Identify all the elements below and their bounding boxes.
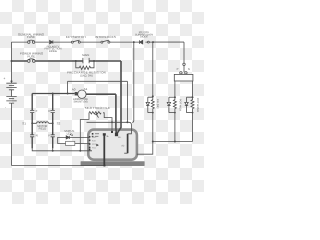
wire LED right lead to controller bbox=[69, 136, 89, 138]
wire pot box to branch2 bbox=[174, 81, 176, 97]
node junction A0 wire tee bbox=[67, 93, 69, 95]
branch 2 bottom bar bbox=[169, 112, 175, 114]
svg-text:DIODE: DIODE bbox=[49, 50, 57, 53]
svg-text:F: F bbox=[36, 109, 38, 113]
controller pin 5 bbox=[89, 149, 91, 151]
node junction bridge bottom right bbox=[52, 150, 54, 152]
contact R left bbox=[30, 135, 34, 137]
node junction branch2 top bbox=[174, 96, 176, 98]
diode D5 branch2 bbox=[167, 97, 170, 112]
svg-text:POT WIPER: POT WIPER bbox=[196, 98, 199, 112]
wire battery negative rail down bbox=[11, 103, 13, 165]
svg-text:+: + bbox=[3, 76, 5, 80]
node junction KSI wire on top bus bbox=[152, 41, 154, 43]
svg-text:KEYSWITCH: KEYSWITCH bbox=[66, 35, 86, 39]
node junction A2 takeoff on rail bbox=[11, 80, 13, 82]
diode D2 MC coil suppression bbox=[140, 40, 150, 44]
svg-text:B-: B- bbox=[107, 135, 110, 138]
terminal pad B- bbox=[103, 133, 106, 135]
meter M1 circle bbox=[78, 90, 86, 98]
wire M- heavy from meter to controller bbox=[86, 94, 116, 133]
controller U1 box bbox=[88, 130, 137, 160]
node junction precharge right bbox=[93, 60, 95, 62]
svg-text:S1: S1 bbox=[22, 122, 26, 126]
label F right bbox=[48, 109, 51, 113]
svg-text:N: N bbox=[188, 68, 190, 71]
terminal B+ blob bbox=[115, 133, 118, 137]
controller mounting flange bbox=[81, 161, 145, 166]
fuse F1 general wiring fuse bbox=[28, 40, 35, 43]
svg-text:POT HIGH: POT HIGH bbox=[178, 99, 181, 111]
controller pin 4 bbox=[89, 147, 91, 149]
terminal circle KSI right bbox=[183, 63, 185, 65]
wire LED left lead return bbox=[58, 137, 90, 143]
label A1 bbox=[84, 87, 88, 91]
contact R right bbox=[51, 135, 55, 137]
wire top control bus bbox=[12, 41, 185, 43]
svg-text:FIELD: FIELD bbox=[39, 127, 47, 130]
branch 3 bottom bar bbox=[187, 112, 193, 114]
svg-text:FLD: FLD bbox=[92, 147, 97, 150]
label KSI vertical bbox=[156, 99, 159, 109]
label MAIN bbox=[82, 53, 89, 57]
svg-text:S2: S2 bbox=[57, 122, 61, 126]
contact F left bbox=[30, 110, 34, 112]
branch 3 pot wiper: top bar bbox=[187, 96, 193, 98]
wire bridge right vertical bbox=[52, 94, 54, 149]
label R left bbox=[36, 134, 39, 138]
svg-text:MAIN: MAIN bbox=[82, 53, 89, 57]
branch 2 pot high: top bar bbox=[169, 96, 175, 98]
svg-text:KSI: KSI bbox=[92, 139, 96, 142]
wire branch bottoms to rail bbox=[153, 113, 193, 142]
node junction precharge left bbox=[75, 60, 77, 62]
wire battery positive rail bbox=[11, 42, 13, 83]
label 5K throttle bbox=[85, 106, 110, 110]
svg-text:FUSE: FUSE bbox=[27, 54, 35, 58]
node junction branch3 bottom bbox=[192, 112, 194, 114]
label MC COIL SUPPRESSION DIODE bbox=[135, 31, 153, 39]
wire B- bottom run to controller bbox=[12, 165, 105, 167]
busbar B- internal bbox=[103, 135, 105, 167]
wire A2 branch corner to W2 bbox=[68, 81, 128, 122]
node junction rail b1 bbox=[152, 141, 154, 143]
branch 1 bottom bar bbox=[148, 112, 153, 114]
terminal circle N bbox=[185, 72, 187, 74]
node junction B- at controller bbox=[104, 165, 106, 167]
label P bbox=[177, 68, 179, 71]
wire rail return into controller bbox=[137, 142, 153, 155]
label KEYSWITCH bbox=[66, 35, 86, 39]
label battery plus bbox=[3, 76, 5, 80]
wire KSI drop from top bus bbox=[152, 42, 154, 96]
label PRECHARGE RESISTOR value bbox=[67, 70, 107, 77]
LED D3 status bbox=[66, 134, 73, 139]
label battery minus bbox=[5, 105, 6, 109]
busbar A2 internal bbox=[127, 134, 129, 153]
potentiometer VR1 bbox=[89, 112, 101, 118]
terminal pad throttle input bbox=[111, 131, 113, 133]
svg-text:DIODE: DIODE bbox=[140, 36, 148, 39]
node junction MC coil wire on top bus bbox=[133, 41, 135, 43]
wire KSI terminal lead bbox=[183, 66, 185, 73]
switch S2 interlocks bbox=[101, 40, 110, 43]
branch 1 KSI input: top bar bbox=[148, 95, 153, 98]
resistor R2 branch1 bbox=[151, 97, 154, 112]
connector box on LED return bbox=[66, 141, 75, 145]
controller pin 2 bbox=[89, 140, 91, 142]
node junction branch3 top bbox=[192, 96, 194, 98]
pot box outline bbox=[174, 74, 193, 81]
svg-text:P: P bbox=[177, 68, 179, 71]
node junction branch2 bottom bbox=[174, 112, 176, 114]
node junction KSI branch top bbox=[152, 95, 154, 97]
wire A2 internal stub bottom bbox=[124, 152, 127, 154]
label A0 bbox=[72, 87, 76, 91]
label B+ bbox=[118, 136, 122, 139]
diode CR1 polarity protection bbox=[50, 40, 53, 43]
node junction pot lead on rail bbox=[79, 150, 81, 152]
label F left bbox=[36, 109, 38, 113]
svg-text:(1KΩ, 5W): (1KΩ, 5W) bbox=[80, 74, 93, 77]
wire KSI to pot box corner bbox=[153, 42, 184, 63]
svg-text:5K-0 THROTTLE: 5K-0 THROTTLE bbox=[85, 106, 110, 110]
pin labels block bbox=[92, 136, 97, 150]
svg-text:INTERLOCKS: INTERLOCKS bbox=[95, 35, 116, 39]
switch S1 keyswitch bbox=[71, 40, 80, 43]
svg-text:FUSE: FUSE bbox=[27, 35, 35, 39]
wire pot box to branch3 bbox=[192, 81, 194, 97]
node junction branch1 bottom bbox=[152, 112, 154, 114]
terminal pad A0 bbox=[75, 92, 78, 95]
resistor R4 branch3 bbox=[191, 97, 194, 112]
inductor L1 motor field coil bbox=[32, 122, 53, 124]
label POWER WIRING FUSE bbox=[20, 51, 44, 58]
svg-text:SHUNT (M): SHUNT (M) bbox=[74, 101, 88, 104]
contactor MC main contactor tips bbox=[83, 58, 89, 63]
label A2 bbox=[121, 145, 125, 148]
label S1 bbox=[22, 122, 26, 126]
wire bridge bottom rail to controller bbox=[32, 148, 92, 150]
svg-text:F: F bbox=[48, 134, 50, 138]
node junction field left bbox=[31, 122, 33, 124]
resistor R1 precharge bbox=[76, 61, 94, 70]
contact F right bbox=[51, 110, 55, 112]
wire armature rail to meter bbox=[32, 93, 74, 95]
wire pot right lead bbox=[103, 113, 112, 132]
wire bridge left vertical bbox=[31, 94, 33, 149]
controller top left pads bbox=[92, 133, 99, 137]
controller internal indicator triangle bbox=[96, 144, 99, 147]
wire main power bus B+ bbox=[12, 61, 122, 133]
node junction rail b2 bbox=[174, 141, 176, 143]
label MOTOR FIELD bbox=[37, 125, 47, 130]
wire W2 throttle common to A2 terminal bbox=[87, 122, 132, 134]
svg-text:A1: A1 bbox=[84, 87, 88, 91]
label INTERLOCKS bbox=[95, 35, 116, 39]
svg-text:KSI (5K): KSI (5K) bbox=[156, 99, 159, 109]
label POLARITY PROTECTION DIODE bbox=[44, 45, 61, 53]
label STATUS LED bbox=[64, 130, 74, 136]
node junction bus takeoff on battery rail bbox=[11, 60, 13, 62]
label shunt caption bbox=[73, 98, 88, 104]
node junction pot right on W2 bbox=[111, 121, 113, 123]
controller pin 3 bbox=[89, 143, 91, 145]
diode D6 branch3 bbox=[185, 97, 188, 112]
resistor R3 branch2 bbox=[173, 97, 176, 112]
label POT HI vertical bbox=[178, 99, 181, 111]
battery B1 bbox=[6, 83, 16, 103]
diode D4 branch1 bbox=[146, 97, 149, 112]
fuse F2 power wiring fuse bbox=[28, 59, 36, 63]
node junction A2 wire on W2 bbox=[126, 121, 128, 123]
svg-text:-: - bbox=[5, 105, 6, 109]
label B- bbox=[107, 135, 110, 138]
node junction bridge top left corner bbox=[31, 94, 33, 96]
svg-text:A0: A0 bbox=[72, 87, 76, 91]
node junction field right bbox=[52, 122, 54, 124]
node junction bridge right top bbox=[52, 93, 54, 95]
controller pin 1 bbox=[89, 136, 91, 138]
label POT WIPER vertical bbox=[196, 98, 199, 112]
terminal circle P bbox=[180, 72, 182, 74]
wire pot left lead bbox=[80, 113, 89, 151]
label N bbox=[188, 68, 190, 71]
label GENERAL WIRING FUSE bbox=[18, 32, 45, 39]
wire signal return rail bbox=[153, 141, 193, 143]
label S2 bbox=[57, 122, 61, 126]
wire MC coil feed vertical bbox=[132, 42, 134, 122]
label R right bbox=[48, 134, 50, 138]
